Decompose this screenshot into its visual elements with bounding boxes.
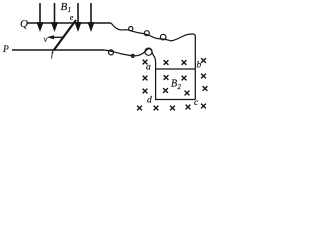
svg-text:B: B [61,1,68,13]
svg-text:e: e [70,13,74,22]
svg-text:c: c [194,98,199,108]
svg-text:2: 2 [178,83,182,91]
svg-text:b: b [197,60,202,70]
svg-text:v: v [44,35,48,44]
svg-text:Q: Q [20,18,28,30]
svg-text:a: a [146,63,151,73]
svg-text:P: P [2,45,9,55]
svg-text:d: d [147,96,152,106]
svg-text:B: B [171,79,177,90]
